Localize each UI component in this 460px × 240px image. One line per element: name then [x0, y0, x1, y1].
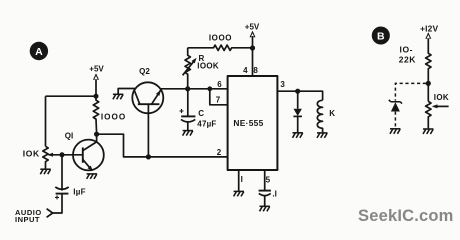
- svg-text:5: 5: [266, 175, 271, 184]
- svg-text:6: 6: [217, 80, 222, 89]
- svg-text:I: I: [241, 175, 243, 184]
- svg-text:+5V: +5V: [245, 22, 260, 31]
- svg-text:Q2: Q2: [139, 67, 150, 76]
- svg-text:8: 8: [253, 66, 258, 75]
- svg-text:+5V: +5V: [89, 65, 104, 74]
- svg-text:3: 3: [280, 80, 285, 89]
- svg-text:4: 4: [243, 66, 248, 75]
- svg-text:A: A: [35, 46, 43, 58]
- svg-text:INPUT: INPUT: [15, 215, 40, 224]
- svg-text:K: K: [329, 109, 335, 118]
- svg-text:.I: .I: [272, 189, 276, 198]
- svg-text:IO-: IO-: [399, 45, 413, 55]
- svg-text:IOK: IOK: [434, 93, 449, 102]
- svg-text:47µF: 47µF: [197, 119, 216, 128]
- svg-text:IOOK: IOOK: [197, 62, 219, 71]
- svg-text:IOK: IOK: [23, 149, 40, 159]
- svg-text:2: 2: [217, 148, 222, 157]
- svg-text:22K: 22K: [399, 54, 416, 64]
- svg-text:SeekIC.com: SeekIC.com: [358, 207, 454, 225]
- svg-text:+I2V: +I2V: [420, 23, 438, 33]
- svg-text:B: B: [377, 30, 385, 42]
- svg-text:C: C: [198, 109, 204, 118]
- svg-text:IµF: IµF: [73, 188, 86, 197]
- svg-text:IOOO: IOOO: [101, 113, 126, 122]
- svg-text:7: 7: [216, 95, 221, 104]
- svg-text:NE·555: NE·555: [233, 118, 263, 128]
- svg-text:QI: QI: [65, 132, 73, 141]
- svg-text:IOOO: IOOO: [209, 33, 232, 42]
